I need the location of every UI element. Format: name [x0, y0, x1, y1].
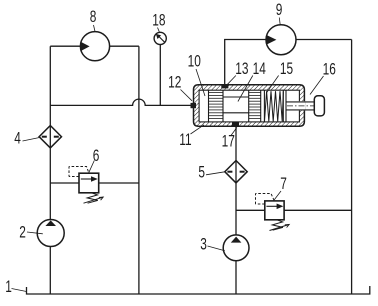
label 9 leader [278, 18, 281, 25]
label 14 leader [238, 76, 253, 102]
port 13 block (top) [221, 84, 228, 88]
cylinder rod gap in right wall [299, 101, 306, 110]
label 18 leader [158, 28, 160, 32]
wire: tank line (bottom rail) [27, 286, 370, 294]
filter 4 [39, 126, 61, 148]
port 12 block (left) [191, 103, 197, 108]
wire: relief valve 6 branch left [50, 182, 79, 184]
svg-text:1: 1 [5, 278, 12, 297]
port 17 block (bottom) [232, 122, 239, 126]
spring 15 [265, 91, 284, 121]
push button head 16 [314, 96, 324, 116]
svg-text:14: 14 [253, 60, 266, 79]
spring 15 right seat [282, 90, 284, 122]
label 10 leader [196, 69, 205, 96]
pump 3 [223, 235, 249, 261]
svg-text:10: 10 [188, 53, 201, 72]
wire: relief valve 7 branch left [236, 209, 265, 211]
svg-text:5: 5 [198, 163, 205, 182]
piston left face 10 [208, 90, 210, 122]
label 1 leader [12, 289, 27, 292]
svg-text:7: 7 [280, 175, 287, 194]
label 6 leader [89, 161, 95, 173]
svg-text:6: 6 [93, 147, 100, 166]
wire: relief valve 6 branch right [99, 182, 139, 184]
relief valve 7 [256, 194, 290, 231]
label 5 leader [206, 172, 225, 175]
label 12 leader [181, 90, 193, 101]
label 2 leader [27, 232, 43, 234]
wire: middle vertical rail [138, 46, 140, 294]
wire: left rail upper segment [49, 46, 51, 219]
svg-text:16: 16 [323, 61, 336, 80]
label 17 leader [231, 128, 237, 136]
svg-text:11: 11 [179, 131, 191, 150]
svg-text:9: 9 [276, 1, 283, 20]
pump 2 [37, 220, 64, 247]
svg-text:8: 8 [90, 8, 97, 27]
label 13 leader [227, 76, 236, 85]
pump 9 [266, 25, 296, 55]
wire: cylinder bottom port down to pump 3 [235, 126, 237, 235]
piston rod 16 [286, 101, 315, 103]
spring 15 left seat [263, 90, 265, 122]
wire: pump 9 loop right [296, 39, 352, 41]
wire: pump 3 to tank line [235, 261, 237, 294]
cylinder body wall (hatched) [194, 85, 305, 126]
svg-text:17: 17 [222, 133, 235, 152]
relief valve 6 [69, 167, 103, 204]
piston left seal band stripes [209, 93, 224, 119]
label 7 leader [274, 191, 282, 201]
wire: pump 8 loop left [50, 45, 80, 47]
svg-text:4: 4 [14, 130, 21, 149]
svg-text:13: 13 [235, 60, 248, 79]
svg-text:18: 18 [152, 12, 165, 31]
label 11 leader [191, 125, 205, 134]
piston centre block 14 [223, 90, 249, 122]
wire: relief valve 7 branch right [284, 209, 352, 211]
label 3 leader [208, 246, 225, 251]
svg-text:12: 12 [168, 74, 181, 93]
label 15 leader [267, 76, 279, 93]
svg-text:2: 2 [19, 224, 26, 243]
wire: gauge drop line [159, 45, 161, 106]
label 16 leader [310, 76, 324, 95]
gauge 18 [154, 32, 166, 44]
wire: left rail lower segment [49, 247, 51, 295]
wire: pump 8 loop right [110, 45, 139, 47]
rod axis centreline [287, 105, 324, 107]
svg-text:15: 15 [280, 60, 293, 79]
label 8 leader [94, 25, 96, 32]
piston right seal band stripes [249, 90, 261, 122]
svg-text:3: 3 [200, 236, 207, 255]
wire: right rail [351, 40, 353, 295]
wire: cylinder top port to pump 9 loop [225, 40, 266, 86]
label 4 leader [23, 138, 40, 142]
pump 8 [80, 32, 109, 61]
filter 5 [225, 161, 247, 183]
wire: pressure line to cylinder with hop [50, 99, 191, 105]
